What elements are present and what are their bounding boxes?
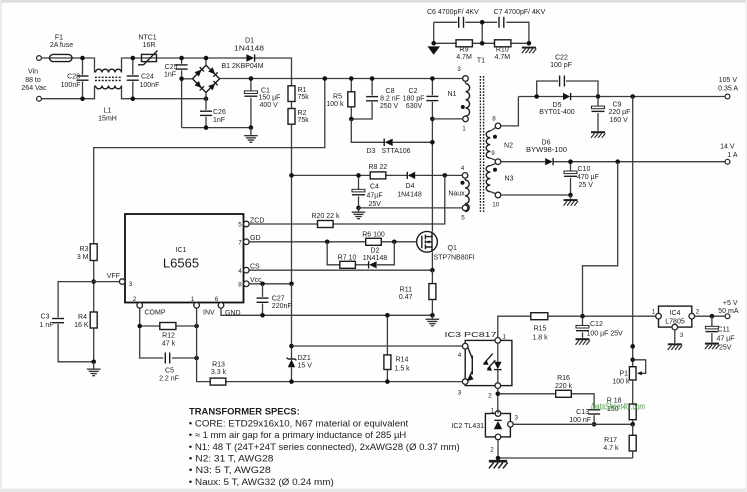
pin 1 INV	[191, 296, 215, 316]
node C22 left	[534, 94, 539, 99]
svg-text:N2: N2	[504, 143, 513, 150]
svg-text:B1 2KBP04M: B1 2KBP04M	[222, 63, 264, 70]
svg-text:150 µF: 150 µF	[259, 95, 281, 102]
wire CS line	[249, 269, 432, 271]
svg-text:1N4148: 1N4148	[234, 46, 264, 53]
svg-text:R1: R1	[298, 87, 307, 94]
capacitor C4 47uF 25V	[352, 175, 383, 208]
node ZCD tap on Naux line	[443, 173, 448, 178]
svg-text:2.2 nF: 2.2 nF	[159, 375, 179, 382]
diode D1 1N4148	[234, 38, 264, 62]
svg-text:10: 10	[492, 202, 500, 209]
terminal 105V output	[718, 77, 738, 99]
svg-text:IC3 PC817: IC3 PC817	[445, 332, 497, 339]
resistor R12 47k	[160, 323, 176, 348]
transformer T1 core	[477, 58, 485, 213]
wire 14V rail	[501, 161, 725, 163]
node C1 top	[249, 76, 254, 81]
svg-text:D4: D4	[406, 183, 415, 190]
svg-text:7: 7	[238, 239, 242, 246]
svg-text:D2: D2	[371, 248, 380, 255]
capacitor C12 100uF 25V	[576, 316, 624, 345]
diode D3 STTA106	[367, 139, 433, 156]
svg-text:1nF: 1nF	[164, 72, 176, 79]
svg-text:2: 2	[490, 447, 494, 454]
svg-text:DataSheet4U.com: DataSheet4U.com	[591, 402, 645, 413]
ground primary at Y-cap left	[427, 46, 440, 54]
node R18/R17 ref	[630, 422, 635, 427]
diode D4 1N4148	[397, 172, 422, 199]
svg-text:100 k: 100 k	[612, 379, 630, 386]
svg-text:88 to: 88 to	[25, 77, 41, 84]
wire Vcc pin line	[249, 283, 291, 285]
node GD split	[325, 240, 330, 245]
svg-text:R5: R5	[333, 94, 342, 101]
svg-text:1N4148: 1N4148	[397, 192, 422, 199]
svg-text:Q1: Q1	[448, 245, 457, 252]
svg-text:2: 2	[696, 309, 700, 316]
wire top AC rail	[41, 58, 291, 86]
winding N2 pins 8,9	[486, 116, 513, 165]
resistor R11 0.47	[399, 270, 436, 315]
svg-text:GD: GD	[250, 235, 261, 242]
pin 7 GD	[238, 235, 260, 246]
resistor R7 10	[338, 255, 357, 269]
svg-text:C7 4700pF/ 4KV: C7 4700pF/ 4KV	[494, 9, 546, 16]
svg-text:14 V: 14 V	[720, 144, 735, 151]
node C24 bottom	[131, 96, 136, 101]
svg-text:R15: R15	[534, 326, 547, 333]
svg-text:D1: D1	[245, 38, 254, 45]
svg-text:8: 8	[492, 116, 496, 123]
node C12 top	[580, 314, 585, 319]
svg-text:1N4148: 1N4148	[363, 255, 388, 262]
svg-text:D6: D6	[542, 140, 551, 147]
svg-text:• N2: 31 T, AWG28: • N2: 31 T, AWG28	[189, 454, 274, 464]
potentiometer P1 100k	[612, 360, 645, 386]
regulator IC4 L7805	[652, 306, 700, 339]
svg-text:1.5 k: 1.5 k	[395, 365, 411, 372]
node opto collector line	[289, 344, 294, 349]
ground primary at R11	[426, 315, 440, 326]
node Vcc supply	[289, 173, 294, 178]
svg-text:DZ1: DZ1	[298, 355, 311, 362]
wire Naux pin5 return	[359, 207, 463, 209]
capacitor C6 4700pF 4KV	[427, 9, 479, 28]
svg-text:1: 1	[462, 126, 466, 133]
svg-text:47 k: 47 k	[162, 340, 176, 347]
zener DZ1 15V	[287, 355, 313, 370]
resistor R13 3.3k	[210, 362, 226, 386]
svg-text:100nF: 100nF	[61, 82, 81, 89]
pin 5 ZCD	[238, 218, 264, 229]
node D3 anode	[430, 140, 435, 145]
svg-text:IC4: IC4	[670, 310, 681, 317]
svg-text:BYT01-400: BYT01-400	[539, 109, 575, 116]
svg-text:C5: C5	[165, 368, 174, 375]
svg-text:P1: P1	[619, 371, 628, 378]
node C23 top	[80, 56, 85, 61]
svg-text:100 nF: 100 nF	[569, 417, 591, 424]
svg-text:IC2 TL431: IC2 TL431	[451, 423, 484, 430]
node C11 top	[710, 314, 715, 319]
node N1 pin1 tap	[430, 117, 463, 122]
svg-text:C2: C2	[409, 88, 418, 95]
svg-text:C24: C24	[141, 74, 154, 81]
resistor R20 22k	[311, 213, 340, 227]
node Y-cap mid bottom	[480, 41, 485, 46]
capacitor C13 100nF	[569, 409, 600, 424]
capacitor C8 8.2nF 250V	[351, 79, 400, 120]
node DZ1 anode / INV line	[289, 379, 294, 384]
diode D2 1N4148	[363, 248, 388, 269]
node C27 top	[260, 282, 265, 287]
wire R3 to VFF node	[93, 261, 95, 313]
capacitor C22 100pF snubber	[537, 55, 598, 97]
node TL431 anode	[496, 456, 501, 461]
svg-text:4.7 k: 4.7 k	[603, 445, 619, 452]
wire pin8 riser to 105V rail	[501, 97, 519, 126]
svg-text:IC1: IC1	[176, 247, 187, 254]
terminal 14V output	[720, 144, 738, 165]
wire ZCD line	[249, 223, 317, 225]
node Y-cap mid top	[480, 20, 485, 25]
input terminal Vin bottom	[37, 96, 42, 101]
transistor Q1 STP7NB80FI	[417, 231, 475, 261]
node C8 top	[370, 76, 375, 81]
shunt regulator IC2 TL431	[451, 407, 518, 453]
svg-text:3.3 k: 3.3 k	[211, 369, 227, 376]
svg-text:L1: L1	[104, 107, 112, 114]
wire startup vertical below Vcc pin	[291, 284, 293, 382]
svg-text:1: 1	[191, 296, 195, 303]
wire R1-R2	[291, 102, 293, 109]
svg-text:25V: 25V	[369, 201, 382, 208]
svg-text:C1: C1	[261, 87, 270, 94]
svg-text:0.47: 0.47	[399, 294, 413, 301]
svg-text:BYW98-100: BYW98-100	[526, 147, 567, 154]
svg-text:2A fuse: 2A fuse	[50, 42, 73, 49]
resistor R6 100	[362, 231, 385, 245]
capacitor C10 470uF 25V	[564, 162, 599, 195]
svg-text:0.35 A: 0.35 A	[718, 85, 738, 92]
node C27 bottom	[260, 313, 265, 318]
pin 2 COMP	[133, 296, 166, 316]
svg-text:R12: R12	[162, 333, 175, 340]
resistor R14 1.5k	[384, 315, 410, 381]
node R5 top	[349, 76, 354, 81]
capacitor C1 150uF 400V	[244, 79, 280, 128]
svg-text:100 k: 100 k	[326, 101, 344, 108]
svg-text:C4: C4	[370, 184, 379, 191]
capacitor C3 1nF	[39, 282, 93, 362]
svg-text:L7805: L7805	[665, 319, 685, 326]
wire TL431 anode to ground rail	[498, 440, 633, 458]
wire Y-cap network bottom line	[434, 42, 529, 44]
capacitor C5 2.2nF	[159, 353, 179, 383]
svg-text:15mH: 15mH	[98, 115, 117, 122]
svg-text:VFF: VFF	[107, 273, 120, 280]
capacitor C26	[200, 93, 226, 128]
svg-text:+5 V: +5 V	[723, 300, 738, 307]
svg-text:1 nF: 1 nF	[39, 322, 53, 329]
svg-text:R4: R4	[78, 314, 87, 321]
wire bottom AC rail	[41, 86, 206, 99]
node C25 branch	[179, 77, 184, 82]
svg-text:1: 1	[503, 333, 507, 340]
resistor R17 4.7k	[603, 424, 636, 458]
node gate	[392, 240, 397, 245]
svg-text:R9: R9	[460, 47, 469, 54]
svg-text:50 mA: 50 mA	[718, 308, 739, 315]
node opto pin2	[496, 392, 501, 397]
node C2 top	[430, 76, 435, 81]
svg-text:9: 9	[491, 150, 495, 157]
node bridge top	[204, 56, 209, 61]
winding N3 pins 9,10	[486, 163, 513, 208]
svg-text:R14: R14	[396, 357, 409, 364]
resistor R4 16K	[74, 312, 97, 329]
svg-text:• ≈ 1 mm air gap for a primary: • ≈ 1 mm air gap for a primary inductanc…	[189, 430, 406, 440]
svg-text:R16: R16	[557, 375, 570, 382]
watermark DataSheet4U	[591, 402, 645, 413]
svg-text:• Naux: 5 T, AWG32 (Ø 0.24 mm): • Naux: 5 T, AWG32 (Ø 0.24 mm)	[189, 477, 334, 487]
svg-text:C9: C9	[613, 102, 622, 109]
ground primary at C4	[352, 208, 366, 219]
wire R4 bottom	[93, 328, 95, 362]
svg-text:C27: C27	[272, 295, 285, 302]
resistor R1 75k	[288, 86, 309, 102]
ground secondary at Y-cap right	[522, 48, 536, 54]
node R11 ground	[430, 313, 435, 318]
node C4 ground / Naux return	[356, 206, 361, 211]
ground secondary at C10	[564, 195, 578, 206]
diode D6 BYW98-100	[526, 140, 567, 166]
node C13 bottom	[592, 422, 597, 427]
svg-text:R7 10: R7 10	[338, 255, 357, 262]
node VFF	[91, 279, 96, 284]
node divider joint	[630, 344, 635, 349]
wire 105V divider vertical	[632, 97, 634, 367]
svg-text:N1: N1	[448, 91, 457, 98]
input terminal Vin top	[37, 56, 42, 61]
svg-text:T1: T1	[477, 58, 485, 65]
svg-text:3: 3	[515, 414, 519, 421]
wire ZCD riser	[333, 175, 445, 224]
svg-text:L6565: L6565	[163, 256, 199, 271]
capacitor C9 220uF 160V	[591, 97, 630, 138]
svg-text:1: 1	[652, 309, 656, 316]
svg-text:1nF: 1nF	[213, 117, 225, 124]
resistor R3 3M	[77, 244, 97, 261]
node Y-cap left	[431, 41, 436, 46]
svg-text:2: 2	[488, 393, 492, 400]
svg-text:R10: R10	[496, 47, 509, 54]
resistor R16 220k	[555, 375, 573, 397]
capacitor C7 4700pF 4KV	[494, 9, 546, 28]
ground primary at C1	[244, 128, 258, 143]
terminal +5V output	[718, 300, 739, 319]
wire pin10 line	[501, 194, 571, 196]
node VFF feed on bus	[323, 76, 328, 81]
ground secondary at TL431	[489, 461, 508, 468]
svg-text:R17: R17	[604, 437, 617, 444]
bridge rectifier B1 2KBP04M	[193, 58, 264, 93]
svg-text:470 µF: 470 µF	[577, 174, 599, 181]
node C10 top	[568, 159, 573, 164]
svg-text:3: 3	[458, 390, 462, 397]
svg-text:R6 100: R6 100	[362, 231, 385, 238]
svg-text:N3: N3	[505, 176, 514, 183]
svg-text:D3: D3	[367, 148, 376, 155]
wire GD line	[249, 241, 417, 243]
svg-text:630V: 630V	[406, 103, 423, 110]
svg-text:100 pF: 100 pF	[550, 62, 572, 69]
svg-text:220nF: 220nF	[272, 303, 292, 310]
wire opto pin2 net	[498, 388, 594, 410]
svg-text:NTC1: NTC1	[138, 35, 156, 42]
inductor L1 common-mode choke	[95, 69, 122, 122]
svg-text:F1: F1	[55, 35, 63, 42]
svg-text:16R: 16R	[143, 42, 156, 49]
svg-text:1: 1	[491, 407, 495, 414]
node P1 wiper tap	[630, 358, 635, 363]
capacitor C2 180pF 630V	[403, 79, 439, 232]
node clamp R5/C8	[349, 117, 354, 122]
node C10 bottom	[568, 193, 573, 198]
resistor R15 1.8k	[531, 313, 548, 342]
svg-text:220 k: 220 k	[555, 383, 573, 390]
node INV/R12	[194, 324, 199, 329]
wire R7/D2 branch	[327, 242, 394, 265]
node R4/C3 ground	[91, 360, 96, 365]
svg-text:1.8 k: 1.8 k	[532, 334, 548, 341]
svg-text:• N1: 48 T (24T+24T series con: • N1: 48 T (24T+24T series connected), 2…	[189, 442, 460, 452]
svg-text:180 pF: 180 pF	[403, 96, 425, 103]
svg-text:8.2 nF: 8.2 nF	[380, 96, 400, 103]
svg-text:C23: C23	[67, 74, 80, 81]
transformer specs text	[189, 407, 460, 487]
svg-text:3: 3	[457, 66, 461, 73]
node COMP/R12	[137, 324, 142, 329]
node C24 top	[131, 56, 136, 61]
svg-text:R13: R13	[212, 362, 225, 369]
wire VFF node to pin3	[94, 273, 122, 282]
svg-text:105 V: 105 V	[719, 77, 738, 84]
wire GND line	[221, 308, 432, 315]
wire clamp to D3	[351, 119, 384, 142]
thermistor NTC1 16R	[138, 35, 158, 65]
resistor R10 4.7M	[495, 40, 511, 61]
pin 4 CS	[238, 264, 260, 275]
svg-text:100 µF 25V: 100 µF 25V	[587, 330, 624, 337]
svg-text:6: 6	[215, 296, 219, 303]
svg-text:15 V: 15 V	[298, 363, 313, 370]
node C22 right / C9	[596, 94, 601, 99]
svg-text:C10: C10	[578, 166, 591, 173]
wire R15 line opto pin1 to IC4	[498, 316, 656, 337]
wire TL431 ref line	[513, 423, 633, 425]
svg-text:R20 22 k: R20 22 k	[311, 213, 340, 220]
wire COMP network	[140, 308, 197, 358]
resistor R5 100k	[326, 79, 354, 120]
svg-text:264 Vac: 264 Vac	[21, 85, 47, 92]
svg-text:400 V: 400 V	[260, 102, 279, 109]
svg-text:C22: C22	[555, 55, 568, 62]
wire Vcc node line	[292, 174, 463, 176]
winding N1 pins 3,1	[448, 66, 470, 133]
node C25 top	[179, 56, 184, 61]
node 14V takeoff	[615, 159, 620, 164]
svg-text:160 V: 160 V	[610, 117, 629, 124]
wire Q1 source to CS	[431, 252, 433, 270]
wire primary ground rail	[182, 127, 251, 129]
resistor R2 75k	[288, 109, 309, 125]
svg-text:R2: R2	[298, 110, 307, 117]
node CS / source	[430, 268, 435, 273]
resistor R18 150	[607, 380, 636, 424]
optocoupler IC3 PC817	[445, 332, 512, 400]
wire 105V rail	[518, 96, 725, 98]
capacitor C24	[127, 58, 160, 99]
svg-text:Vin: Vin	[28, 69, 38, 76]
pin 3 VFF	[119, 279, 132, 288]
resistor R9 4.7M	[456, 40, 472, 61]
wire opto collector line	[292, 345, 463, 347]
wire INV vertical and INV line	[197, 308, 463, 382]
svg-text:4.7M: 4.7M	[456, 54, 472, 61]
node Vcc pin / startup chain	[289, 282, 294, 287]
svg-text:R3: R3	[80, 246, 89, 253]
node INV/C5	[194, 356, 199, 361]
diode D5 BYT01-400	[539, 93, 575, 116]
capacitor C11 47uF 25V	[705, 316, 735, 351]
svg-text:3: 3	[680, 332, 684, 339]
wire HV bus	[220, 78, 463, 80]
pin 6 GND	[215, 296, 241, 317]
fuse F1	[50, 35, 74, 62]
wire TL431 cathode stub	[497, 411, 499, 414]
svg-text:5: 5	[461, 215, 465, 222]
svg-text:220 µF: 220 µF	[609, 109, 631, 116]
svg-text:47µF: 47µF	[367, 192, 383, 199]
capacitor C23	[61, 58, 89, 99]
svg-text:R11: R11	[400, 286, 412, 293]
svg-text:C3: C3	[41, 313, 50, 320]
node bridge bottom AC	[204, 96, 209, 101]
svg-text:3: 3	[129, 281, 133, 288]
wire VFF feed line from HV bus	[94, 79, 325, 244]
ground secondary at IC4 pin3	[668, 330, 682, 350]
svg-text:COMP: COMP	[145, 310, 166, 317]
svg-text:• N3: 5 T, AWG28: • N3: 5 T, AWG28	[189, 465, 271, 475]
svg-text:5: 5	[238, 222, 242, 229]
node 105V divider tap	[630, 94, 635, 99]
pin 8 Vcc	[238, 277, 262, 288]
svg-text:D5: D5	[553, 102, 562, 109]
svg-text:75k: 75k	[298, 117, 310, 124]
label Vin 88 to 264 Vac	[21, 69, 47, 93]
svg-text:C8: C8	[386, 88, 395, 95]
svg-text:4: 4	[238, 268, 242, 275]
svg-text:47 µF: 47 µF	[717, 336, 735, 343]
svg-text:4.7M: 4.7M	[495, 54, 511, 61]
svg-text:• CORE: ETD29x16x10, N67 mate: • CORE: ETD29x16x10, N67 material or equ…	[189, 418, 409, 428]
svg-text:16 K: 16 K	[74, 322, 89, 329]
node C26 bottom	[204, 125, 209, 130]
svg-text:C6 4700pF/ 4KV: C6 4700pF/ 4KV	[427, 9, 479, 16]
node C23 bottom	[80, 96, 85, 101]
